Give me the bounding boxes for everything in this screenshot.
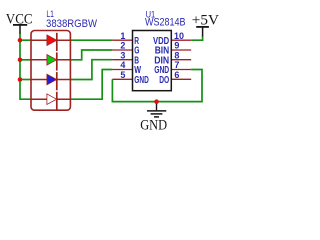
svg-text:2: 2 <box>120 41 125 51</box>
svg-text:3838RGBW: 3838RGBW <box>46 18 98 30</box>
svg-text:DO: DO <box>159 75 169 86</box>
svg-text:GND: GND <box>140 118 167 134</box>
svg-text:4: 4 <box>120 60 125 70</box>
svg-text:1: 1 <box>120 31 125 41</box>
svg-text:7: 7 <box>174 60 179 70</box>
svg-text:GND: GND <box>134 75 149 86</box>
svg-text:6: 6 <box>174 70 179 80</box>
svg-text:5: 5 <box>120 70 125 80</box>
svg-text:WS2814B: WS2814B <box>145 17 186 29</box>
svg-text:9: 9 <box>174 41 179 51</box>
svg-text:3: 3 <box>120 50 125 60</box>
svg-text:8: 8 <box>174 50 179 60</box>
svg-text:VCC: VCC <box>6 11 33 27</box>
svg-text:10: 10 <box>174 31 184 41</box>
svg-text:+5V: +5V <box>192 13 220 29</box>
